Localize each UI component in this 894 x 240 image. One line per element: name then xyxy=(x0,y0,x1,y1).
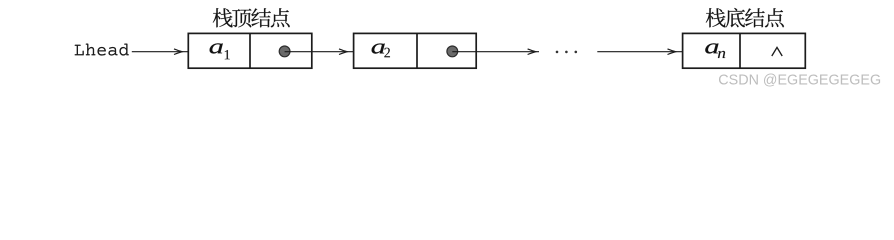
label 栈底结点 (bottom-of-stack node) xyxy=(706,8,784,27)
node an box xyxy=(683,33,806,68)
data field label a1 xyxy=(210,43,230,59)
pointer origin dot in node a1 xyxy=(279,46,290,57)
label 栈顶结点 (top-of-stack node) xyxy=(213,8,290,27)
data field label a2 xyxy=(372,44,390,58)
ellipsis dots xyxy=(556,51,577,54)
arrowhead into node an xyxy=(668,49,676,55)
node a1 box xyxy=(188,33,311,68)
arrowhead toward ellipsis xyxy=(528,49,536,55)
null pointer mark in node an xyxy=(772,47,782,56)
wire Lhead to node a1 xyxy=(132,51,189,53)
pointer origin dot in node a2 xyxy=(447,46,458,57)
wire ellipsis to node an xyxy=(597,51,682,53)
arrowhead into node a1 xyxy=(174,49,182,55)
head pointer label Lhead xyxy=(75,44,129,56)
svg-text:CSDN @EGEGEGEGEG: CSDN @EGEGEGEGEG xyxy=(718,72,881,88)
node a2 box xyxy=(354,33,477,68)
wire node a1 pointer to node a2 xyxy=(285,51,354,53)
wire node a2 pointer toward ellipsis xyxy=(452,51,539,53)
data field label an xyxy=(705,43,725,58)
arrowhead into node a2 xyxy=(339,49,347,55)
